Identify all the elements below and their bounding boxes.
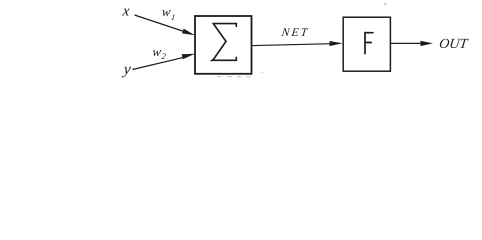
node y input label: [121, 61, 133, 78]
net NET label: [280, 26, 310, 39]
scan artifact dot top right: [385, 4, 387, 6]
arrowhead into summer from y: [182, 54, 195, 59]
F glyph inside function block: [364, 32, 373, 54]
wire OUT from F block: [391, 42, 423, 44]
node OUT output label: [438, 36, 469, 52]
sigma glyph inside summation block: [212, 24, 236, 61]
svg-text:NET: NET: [280, 26, 310, 39]
summation block U1 box: [195, 16, 252, 74]
weight label w1: [161, 4, 172, 19]
node x input label: [121, 4, 131, 20]
wire input y to summer: [133, 57, 185, 69]
weight label w2: [152, 44, 163, 59]
function block F box: [343, 17, 390, 71]
arrowhead into summer from x: [182, 29, 195, 36]
wire NET from summer to F block: [252, 44, 332, 46]
arrowhead before OUT label: [421, 41, 433, 46]
wire input x to summer: [135, 15, 185, 32]
svg-text:OUT: OUT: [438, 36, 469, 52]
svg-text:x: x: [121, 4, 131, 20]
scan artifact dots under summation block: [217, 72, 263, 77]
arrowhead into F block: [330, 41, 343, 46]
svg-text:1: 1: [171, 12, 176, 22]
svg-text:2: 2: [161, 51, 167, 61]
svg-text:y: y: [121, 61, 133, 78]
